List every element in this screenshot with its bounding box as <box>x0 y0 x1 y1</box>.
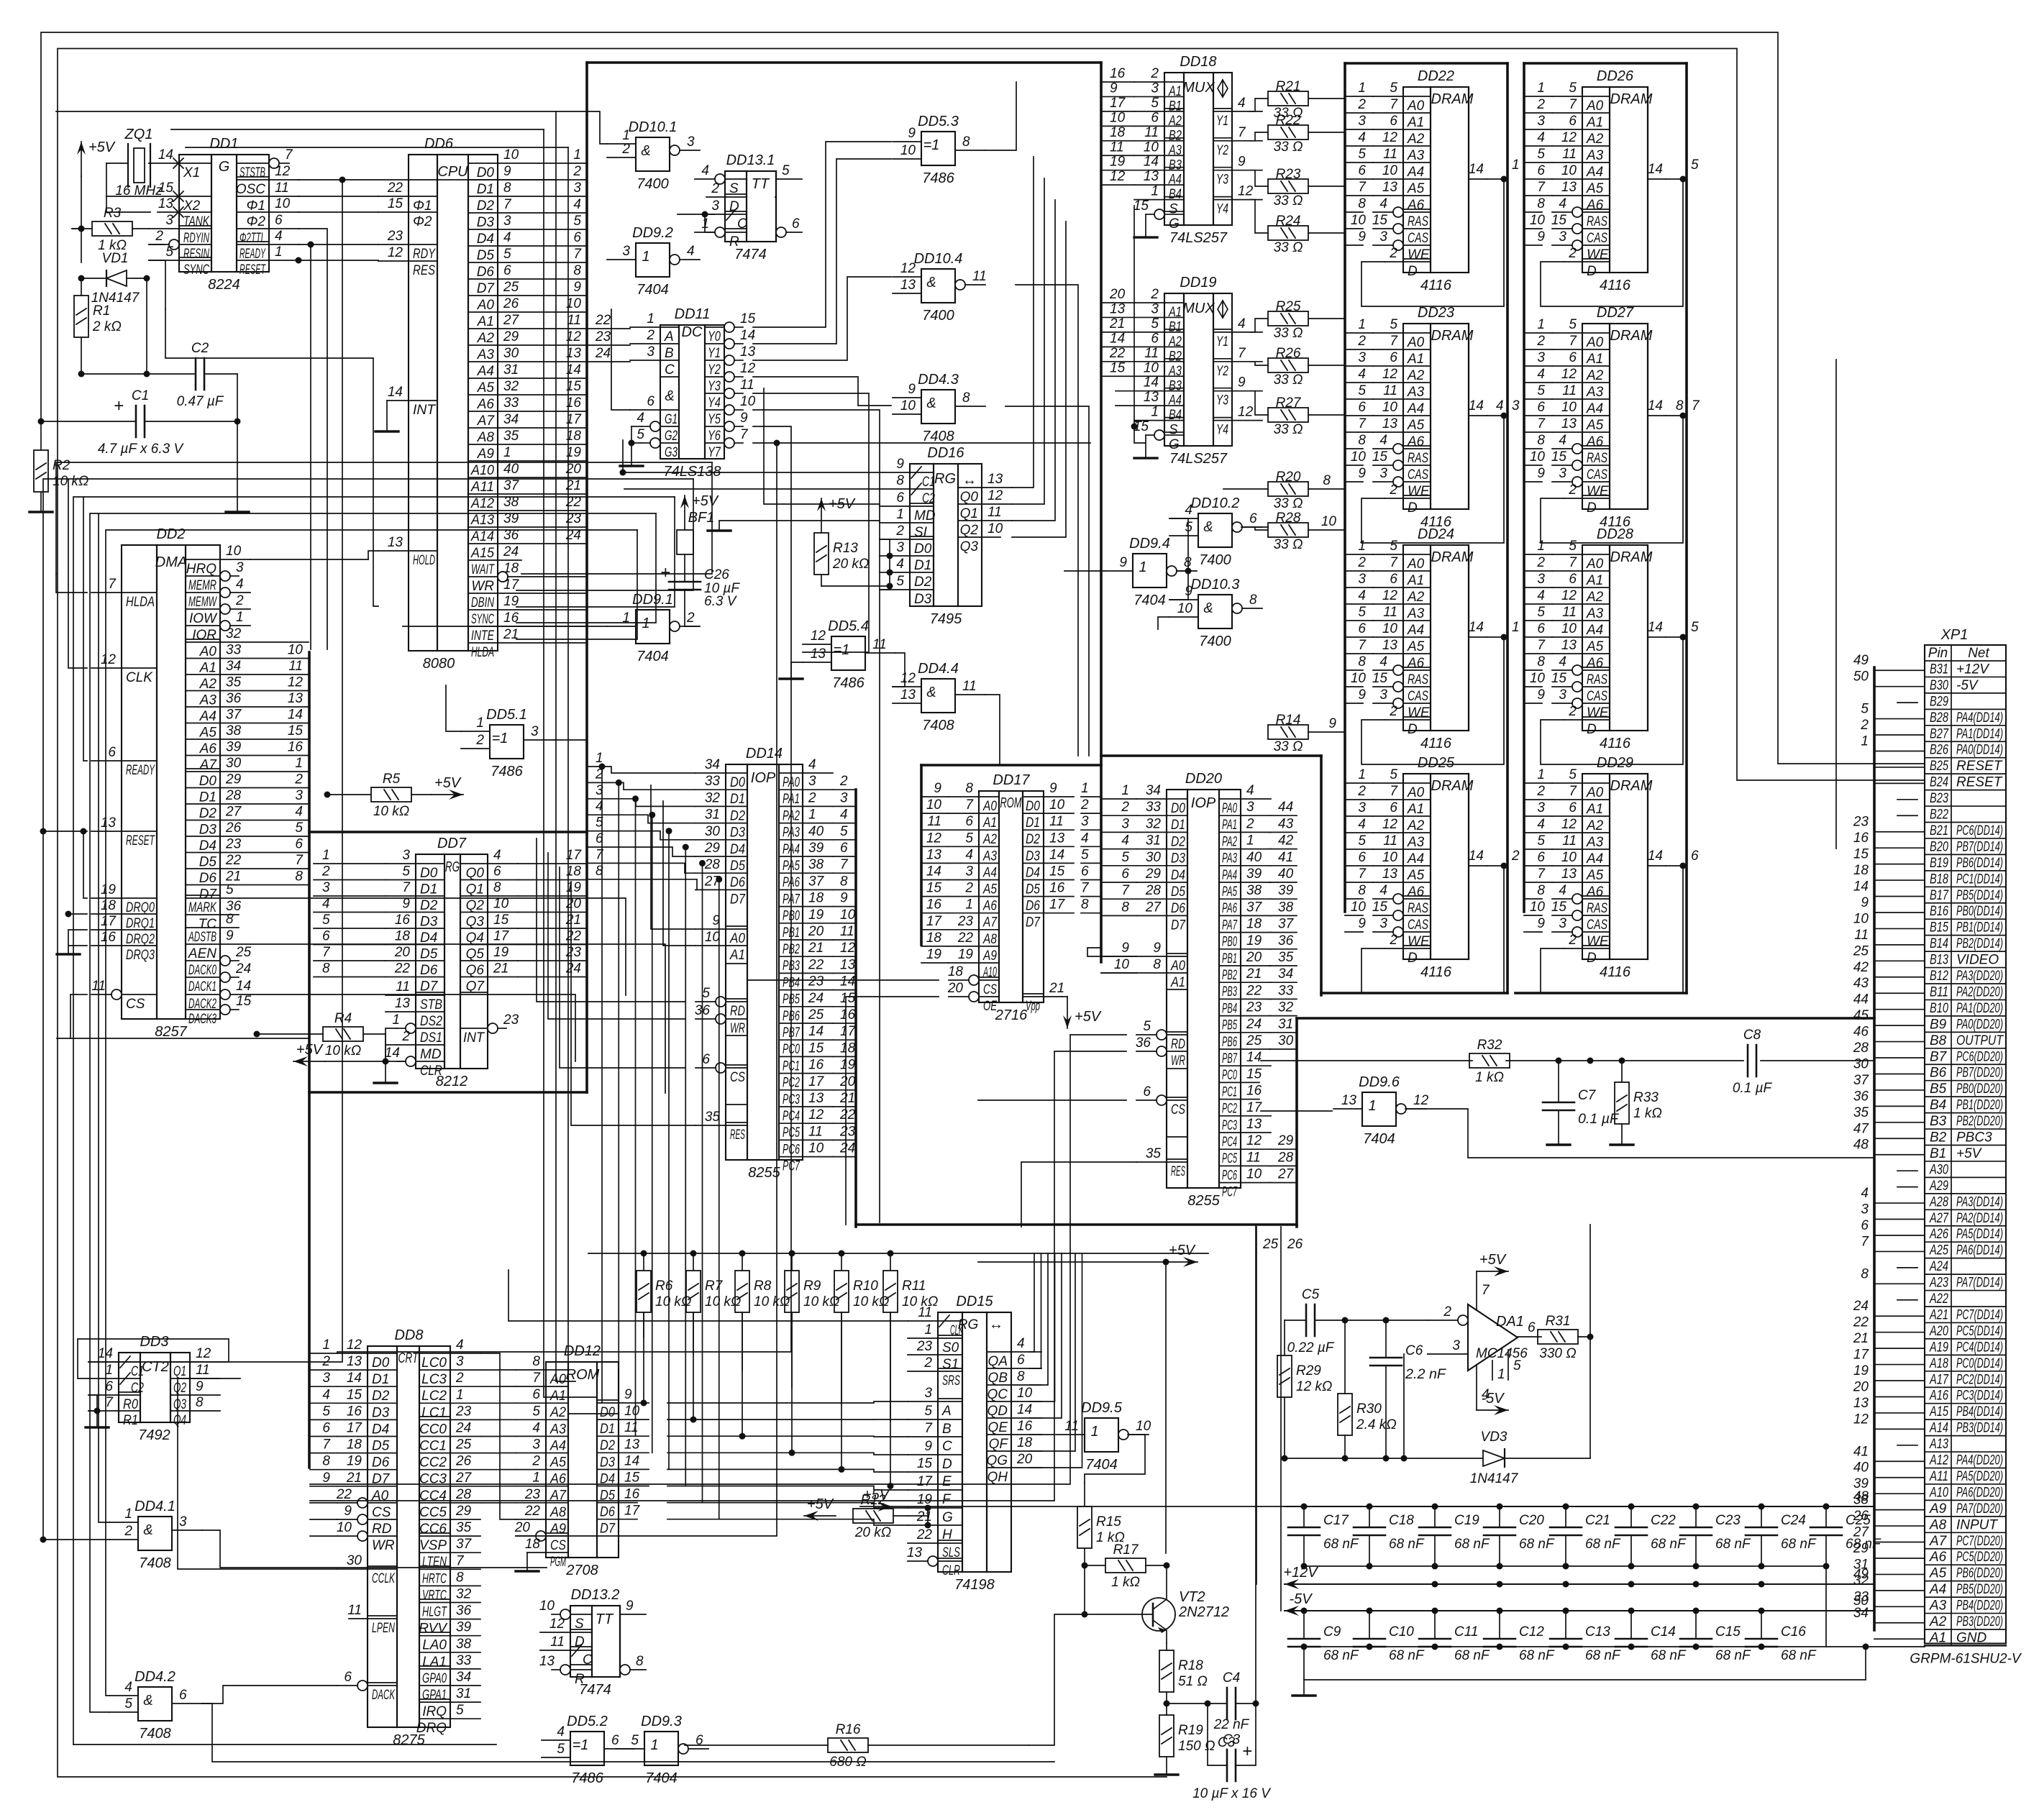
wires MUX outputs through resistors <box>1250 99 1268 111</box>
svg-text:A1: A1 <box>1407 802 1424 817</box>
svg-text:D3: D3 <box>199 823 217 838</box>
svg-text:7400: 7400 <box>1199 634 1231 649</box>
svg-text:C: C <box>665 362 675 378</box>
svg-text:PB3: PB3 <box>1222 984 1237 1000</box>
ground DD3 <box>96 1395 98 1427</box>
svg-text:DD5.2: DD5.2 <box>567 1714 608 1729</box>
svg-text:PA3: PA3 <box>1222 851 1237 866</box>
svg-text:34: 34 <box>1146 783 1161 798</box>
svg-text:CC0: CC0 <box>419 1422 447 1437</box>
wire DD10.2 out <box>1241 526 1268 528</box>
svg-text:22: 22 <box>336 1487 352 1502</box>
svg-text:5: 5 <box>456 1703 464 1718</box>
svg-text:10: 10 <box>1144 140 1159 155</box>
svg-text:A0: A0 <box>1586 785 1604 800</box>
svg-text:6: 6 <box>275 213 283 228</box>
svg-text:IOP: IOP <box>1191 795 1216 811</box>
svg-text:2: 2 <box>1568 483 1577 498</box>
svg-text:READY: READY <box>240 247 266 262</box>
svg-text:33 Ω: 33 Ω <box>1274 240 1303 255</box>
svg-text:A1: A1 <box>1586 352 1603 367</box>
svg-text:11: 11 <box>1562 605 1577 620</box>
svg-text:A1: A1 <box>199 661 216 676</box>
svg-text:14: 14 <box>1469 162 1484 177</box>
svg-text:36: 36 <box>226 691 242 706</box>
svg-text:1: 1 <box>1358 767 1366 782</box>
svg-text:PC2: PC2 <box>1222 1102 1237 1117</box>
svg-text:4: 4 <box>1559 883 1566 898</box>
svg-text:15: 15 <box>1551 671 1567 686</box>
thick bus line DRAM col2 top <box>1524 62 1687 65</box>
svg-text:40: 40 <box>1246 850 1262 865</box>
svg-text:+5V: +5V <box>692 493 719 509</box>
wire DD15 outputs up <box>1030 1253 1034 1352</box>
svg-text:1: 1 <box>1090 1424 1098 1440</box>
svg-text:PGM: PGM <box>550 1555 566 1570</box>
svg-text:8: 8 <box>1121 900 1129 915</box>
svg-text:3: 3 <box>1246 800 1254 815</box>
svg-text:7: 7 <box>108 577 117 592</box>
wire phi1 <box>298 196 378 197</box>
svg-text:10: 10 <box>1136 1419 1151 1434</box>
svg-text:11: 11 <box>1383 383 1397 398</box>
svg-text:3: 3 <box>1559 229 1566 244</box>
svg-text:8: 8 <box>1358 433 1366 448</box>
svg-text:11: 11 <box>275 180 289 196</box>
svg-text:C2: C2 <box>191 341 209 356</box>
svg-text:8: 8 <box>322 1454 330 1469</box>
svg-text:13: 13 <box>1144 169 1159 184</box>
svg-text:10: 10 <box>1561 400 1577 415</box>
resistor R33 1k <box>1615 1082 1629 1124</box>
svg-text:MD: MD <box>914 508 936 523</box>
svg-text:23: 23 <box>524 1487 541 1502</box>
power label +5V rail <box>860 1506 892 1507</box>
svg-text:1: 1 <box>808 808 816 823</box>
svg-text:INPUT: INPUT <box>1956 1517 1998 1532</box>
svg-text:DD9.2: DD9.2 <box>632 225 673 241</box>
svg-text:12: 12 <box>1561 367 1577 382</box>
svg-text:A11: A11 <box>1929 1469 1948 1484</box>
svg-text:19: 19 <box>101 882 117 897</box>
svg-text:D3: D3 <box>1171 851 1185 866</box>
svg-text:2: 2 <box>1389 704 1397 719</box>
svg-text:A5: A5 <box>1586 418 1604 433</box>
svg-text:R7: R7 <box>705 1279 724 1294</box>
svg-text:A0: A0 <box>1407 335 1425 350</box>
svg-text:8: 8 <box>1537 654 1545 669</box>
svg-text:18: 18 <box>347 1437 362 1453</box>
svg-text:B11: B11 <box>1930 984 1948 1000</box>
svg-text:37: 37 <box>1853 1073 1870 1088</box>
svg-text:D1: D1 <box>420 882 437 897</box>
svg-text:12: 12 <box>1853 1412 1869 1427</box>
svg-text:30: 30 <box>226 756 242 771</box>
svg-text:18: 18 <box>1110 125 1126 140</box>
svg-text:3: 3 <box>1358 350 1366 365</box>
svg-text:4: 4 <box>573 197 581 212</box>
svg-text:4: 4 <box>1358 367 1366 382</box>
svg-text:CAS: CAS <box>1587 918 1607 933</box>
resistor R12 20k <box>853 1509 893 1523</box>
svg-text:CPU: CPU <box>437 164 468 180</box>
svg-text:5: 5 <box>557 1742 565 1757</box>
svg-text:28: 28 <box>225 788 242 803</box>
capacitor C8 0.1uF <box>1747 1045 1749 1076</box>
svg-text:CAS: CAS <box>1408 467 1428 483</box>
svg-text:6: 6 <box>1151 331 1159 346</box>
svg-text:11: 11 <box>288 659 303 674</box>
wire DD2 CS route <box>70 994 309 1038</box>
svg-text:A6: A6 <box>982 899 997 914</box>
svg-text:A4: A4 <box>199 709 216 724</box>
svg-text:10 kΩ: 10 kΩ <box>373 804 409 819</box>
svg-text:A11: A11 <box>470 480 494 495</box>
svg-text:6: 6 <box>702 1052 710 1067</box>
svg-text:15: 15 <box>917 1456 933 1471</box>
svg-text:14: 14 <box>1110 331 1125 346</box>
power +5V arrow left <box>293 1061 325 1062</box>
svg-text:12: 12 <box>740 361 756 376</box>
svg-text:17: 17 <box>101 914 117 929</box>
svg-text:10: 10 <box>539 1599 555 1614</box>
wire long vertical bus b <box>544 129 597 1397</box>
svg-text:9: 9 <box>1119 555 1127 570</box>
svg-text:D: D <box>1408 264 1418 279</box>
svg-text:QD: QD <box>987 1404 1008 1419</box>
svg-text:STB: STB <box>420 997 442 1012</box>
svg-text:33: 33 <box>1278 983 1294 998</box>
svg-text:40: 40 <box>808 824 824 839</box>
svg-text:37: 37 <box>456 1537 473 1552</box>
svg-text:2: 2 <box>895 523 904 539</box>
wire DD15 CLK <box>508 1270 908 1321</box>
svg-text:C22: C22 <box>1651 1513 1676 1528</box>
wire character lines DD12 to DD15 <box>667 1401 908 1403</box>
svg-text:Q2: Q2 <box>173 1381 186 1396</box>
svg-text:2: 2 <box>455 1371 464 1386</box>
svg-text:DRAM: DRAM <box>1431 91 1474 107</box>
DD7 bus wires <box>518 863 587 864</box>
svg-text:8: 8 <box>1676 398 1684 413</box>
svg-text:10: 10 <box>1530 213 1546 228</box>
svg-text:9: 9 <box>1153 941 1161 956</box>
flip-flop DD13.1 7474 <box>725 171 776 242</box>
svg-text:4: 4 <box>1537 817 1545 832</box>
svg-text:D7: D7 <box>1026 915 1041 930</box>
svg-text:7: 7 <box>924 1421 933 1436</box>
svg-text:RES: RES <box>1171 1164 1185 1179</box>
svg-text:6: 6 <box>965 814 973 829</box>
svg-text:4: 4 <box>965 847 973 862</box>
svg-text:3: 3 <box>1537 800 1545 815</box>
svg-text:3: 3 <box>1559 916 1566 931</box>
svg-text:11: 11 <box>550 1634 565 1650</box>
svg-text:1: 1 <box>456 1387 464 1402</box>
svg-text:5: 5 <box>1691 620 1699 635</box>
svg-text:CAS: CAS <box>1587 467 1607 483</box>
svg-text:Q2: Q2 <box>960 523 979 538</box>
wire DD4.1 pin2 <box>43 1539 109 1540</box>
svg-text:3: 3 <box>1537 114 1545 129</box>
resistor R32 1k <box>1469 1053 1510 1068</box>
thick bus line DD20 module right lower <box>1295 1018 1298 1227</box>
svg-text:13: 13 <box>1382 180 1398 195</box>
svg-text:Φ1: Φ1 <box>413 198 432 214</box>
svg-text:13: 13 <box>395 996 411 1011</box>
svg-text:A4: A4 <box>1407 165 1424 180</box>
svg-text:2: 2 <box>1357 555 1366 570</box>
svg-text:HOLD: HOLD <box>413 553 435 568</box>
svg-text:D1: D1 <box>372 1372 389 1387</box>
resistor R13 20k <box>814 533 829 575</box>
svg-text:&: & <box>926 275 936 291</box>
svg-text:DS2: DS2 <box>420 1014 442 1029</box>
svg-text:A1: A1 <box>729 948 745 963</box>
svg-text:14: 14 <box>1144 155 1159 170</box>
svg-text:PA7(DD14): PA7(DD14) <box>1956 1276 2003 1291</box>
wire C26 to DD9.1 <box>685 626 699 627</box>
svg-text:DRAM: DRAM <box>1431 549 1474 565</box>
svg-text:1: 1 <box>295 756 303 771</box>
svg-text:2: 2 <box>1357 784 1366 799</box>
svg-text:15: 15 <box>1551 900 1567 915</box>
wire DD16 MD <box>764 388 880 504</box>
svg-text:HLDA: HLDA <box>126 595 155 610</box>
resistor R17 1k <box>1105 1558 1146 1573</box>
svg-text:6: 6 <box>1390 114 1397 129</box>
svg-text:D4: D4 <box>199 838 216 854</box>
svg-text:6: 6 <box>344 1670 352 1685</box>
svg-text:15: 15 <box>926 881 942 896</box>
svg-text:OE: OE <box>983 999 997 1014</box>
svg-text:27: 27 <box>225 805 242 820</box>
svg-text:9: 9 <box>1537 687 1545 703</box>
svg-text:2: 2 <box>475 733 484 748</box>
svg-text:A3: A3 <box>1586 835 1604 850</box>
svg-text:Q6: Q6 <box>466 963 485 978</box>
svg-text:28: 28 <box>1853 1041 1869 1056</box>
svg-text:XP1: XP1 <box>1940 627 1969 643</box>
svg-text:11: 11 <box>1562 383 1577 398</box>
svg-text:32: 32 <box>503 379 519 394</box>
svg-text:A3: A3 <box>477 347 495 362</box>
svg-text:40: 40 <box>1278 866 1294 882</box>
svg-text:6: 6 <box>1537 163 1545 178</box>
svg-text:Q0: Q0 <box>960 490 979 505</box>
svg-text:Φ2: Φ2 <box>247 214 266 229</box>
svg-text:8: 8 <box>636 1654 644 1669</box>
wire rdy <box>298 244 378 245</box>
svg-text:A5: A5 <box>1929 1566 1947 1581</box>
svg-text:Y2: Y2 <box>1216 364 1228 379</box>
svg-text:D5: D5 <box>372 1439 390 1454</box>
wire +5V rail R6-R11 <box>588 1253 1208 1254</box>
svg-text:A3: A3 <box>1929 1599 1947 1614</box>
svg-text:6: 6 <box>1358 621 1366 636</box>
svg-text:16: 16 <box>395 913 411 928</box>
svg-text:13: 13 <box>1853 1396 1869 1411</box>
svg-text:15: 15 <box>740 311 756 326</box>
svg-text:5: 5 <box>1569 81 1577 96</box>
svg-text:D: D <box>1408 722 1418 737</box>
svg-text:20: 20 <box>394 945 411 960</box>
svg-text:7: 7 <box>1358 180 1367 195</box>
svg-text:33 Ω: 33 Ω <box>1274 193 1303 209</box>
svg-text:WE: WE <box>1587 934 1609 949</box>
svg-text:18: 18 <box>525 1537 541 1552</box>
wire ring W1 <box>41 32 1925 764</box>
svg-text:2: 2 <box>711 181 719 196</box>
svg-text:Φ2TTL: Φ2TTL <box>240 231 265 246</box>
svg-text:15: 15 <box>288 723 304 738</box>
svg-text:3: 3 <box>1358 800 1366 815</box>
svg-text:12: 12 <box>900 671 916 686</box>
wire thin right column <box>1835 360 1837 849</box>
svg-text:+: + <box>660 563 670 582</box>
svg-text:4: 4 <box>1246 783 1254 798</box>
svg-text:39: 39 <box>1246 866 1262 882</box>
svg-text:4: 4 <box>295 805 303 820</box>
svg-text:A0: A0 <box>1407 785 1425 800</box>
XOR gate DD5.1 7486 <box>490 725 524 759</box>
svg-text:12: 12 <box>388 245 403 260</box>
svg-text:12: 12 <box>1246 1133 1262 1148</box>
svg-text:6: 6 <box>108 745 116 760</box>
svg-text:22: 22 <box>1853 1315 1869 1330</box>
svg-text:9: 9 <box>934 781 941 796</box>
svg-text:PC4: PC4 <box>1222 1135 1237 1150</box>
svg-text:21: 21 <box>1109 316 1125 331</box>
DRAM DD22 4116 <box>1403 87 1469 273</box>
svg-text:A4: A4 <box>1407 623 1424 638</box>
svg-text:18: 18 <box>926 930 942 946</box>
svg-text:SRS: SRS <box>942 1373 960 1389</box>
svg-text:A5: A5 <box>199 726 217 741</box>
svg-text:11: 11 <box>1383 833 1397 849</box>
svg-text:PC2(DD14): PC2(DD14) <box>1956 1372 2003 1387</box>
svg-text:12: 12 <box>808 1107 824 1122</box>
svg-text:DD9.3: DD9.3 <box>641 1714 682 1729</box>
svg-text:5: 5 <box>965 831 973 846</box>
svg-text:A2: A2 <box>1586 590 1604 605</box>
svg-text:68 nF: 68 nF <box>1651 1648 1687 1663</box>
svg-text:7: 7 <box>1537 866 1546 882</box>
svg-text:11: 11 <box>740 378 754 393</box>
svg-text:A30: A30 <box>1929 1162 1948 1177</box>
svg-text:D0: D0 <box>600 1405 615 1420</box>
svg-text:34: 34 <box>705 757 720 772</box>
svg-text:4116: 4116 <box>1600 736 1631 751</box>
svg-text:7486: 7486 <box>922 170 954 186</box>
svg-text:WR: WR <box>372 1538 395 1553</box>
svg-text:VRTC: VRTC <box>422 1588 447 1603</box>
svg-text:1: 1 <box>1081 781 1089 796</box>
svg-text:42: 42 <box>1853 960 1869 975</box>
svg-text:0.1 µF: 0.1 µF <box>1733 1081 1773 1096</box>
svg-text:9: 9 <box>503 164 511 179</box>
svg-text:+5V: +5V <box>1956 1146 1983 1161</box>
svg-text:24: 24 <box>235 961 251 977</box>
svg-text:7492: 7492 <box>138 1427 170 1443</box>
svg-text:PB2(DD14): PB2(DD14) <box>1956 936 2003 951</box>
svg-text:A7: A7 <box>477 413 496 429</box>
svg-text:LPEN: LPEN <box>372 1621 395 1636</box>
thick bus line DD7 bottom <box>309 1091 587 1094</box>
svg-text:3: 3 <box>1559 466 1566 481</box>
resistor R19 150 <box>1159 1715 1174 1757</box>
svg-text:24: 24 <box>1246 1017 1262 1032</box>
svg-text:18: 18 <box>808 891 824 906</box>
wire DD20 control <box>310 1035 1126 1484</box>
svg-text:7: 7 <box>456 1553 465 1568</box>
svg-text:=1: =1 <box>492 731 508 746</box>
svg-text:C4: C4 <box>1223 1670 1240 1686</box>
svg-text:VIDEO: VIDEO <box>1956 953 1999 968</box>
svg-text:PC6: PC6 <box>1222 1168 1237 1183</box>
wire DD4.3 out <box>1005 406 1089 756</box>
svg-text:1: 1 <box>322 848 330 863</box>
svg-text:0.1 µF: 0.1 µF <box>1578 1112 1619 1127</box>
svg-text:16: 16 <box>624 1487 640 1502</box>
svg-text:18: 18 <box>101 898 117 913</box>
NAND gate DD10.3 7400 <box>1198 595 1232 628</box>
svg-text:DD17: DD17 <box>993 772 1030 788</box>
svg-text:2: 2 <box>646 328 654 343</box>
svg-text:12: 12 <box>101 652 117 667</box>
svg-text:13: 13 <box>101 815 117 831</box>
svg-text:6: 6 <box>179 1688 187 1703</box>
svg-text:37: 37 <box>226 708 242 723</box>
svg-text:1: 1 <box>965 897 973 913</box>
svg-text:3: 3 <box>456 1354 464 1369</box>
svg-text:31: 31 <box>1146 833 1161 849</box>
svg-text:2: 2 <box>235 593 244 608</box>
svg-text:10: 10 <box>1530 900 1546 915</box>
svg-text:35: 35 <box>705 1110 721 1125</box>
svg-text:5: 5 <box>1537 383 1545 398</box>
wire long vertical bus a <box>556 111 575 1381</box>
svg-text:7: 7 <box>1482 1283 1490 1298</box>
svg-text:36: 36 <box>456 1604 472 1619</box>
svg-text:11: 11 <box>1144 125 1159 140</box>
wire DD2 left taps <box>56 574 87 593</box>
wire <box>149 260 165 309</box>
svg-text:CLK: CLK <box>126 670 153 685</box>
svg-text:R: R <box>729 234 739 250</box>
svg-text:5: 5 <box>1358 605 1366 620</box>
svg-text:8: 8 <box>1323 473 1331 488</box>
ground DRQ <box>68 930 87 954</box>
flip-flop DD13.2 7474 <box>570 1606 620 1677</box>
svg-text:29: 29 <box>1145 866 1162 882</box>
svg-text:D2: D2 <box>372 1389 390 1404</box>
svg-text:16: 16 <box>1049 881 1065 896</box>
svg-text:DD12: DD12 <box>564 1343 601 1359</box>
wire R12 to DD15 G/H <box>925 1505 931 1512</box>
svg-text:PC5(DD20): PC5(DD20) <box>1956 1550 2003 1565</box>
svg-text:D6: D6 <box>1171 901 1185 916</box>
svg-text:A6: A6 <box>1586 656 1604 671</box>
svg-text:RAS: RAS <box>1408 672 1428 687</box>
svg-text:17: 17 <box>493 929 510 944</box>
svg-text:2: 2 <box>964 881 973 896</box>
svg-text:A4: A4 <box>1929 1582 1946 1597</box>
svg-text:45: 45 <box>1853 1008 1869 1023</box>
svg-text:C10: C10 <box>1389 1624 1414 1640</box>
svg-text:1: 1 <box>642 616 649 631</box>
CRT controller DD8 8275 <box>368 1346 450 1727</box>
